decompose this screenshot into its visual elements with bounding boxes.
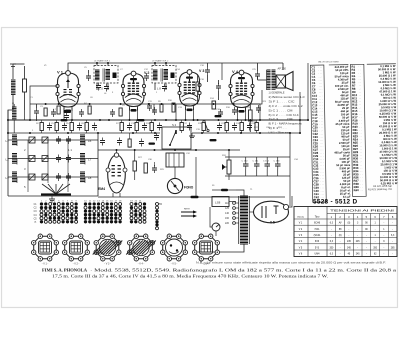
svg-text:TENSIONI AI PIEDINI: TENSIONI AI PIEDINI [330, 209, 394, 213]
svg-text:140: 140 [225, 212, 230, 215]
wire transformer bottom [196, 244, 244, 252]
wire bank rail c [67, 140, 69, 192]
svg-text:· ·: · · [359, 130, 361, 132]
wire right drop [289, 133, 291, 176]
wire V1 left loop [30, 86, 58, 104]
wire cap row top [225, 156, 290, 158]
resistor Rb11 [240, 123, 243, 131]
svg-text:(0): (0) [347, 223, 350, 225]
capacitor bank row3 [56, 173, 61, 181]
coil L2 [12, 154, 17, 164]
coil L6 [80, 172, 85, 182]
svg-text:Valvola: Valvola [297, 217, 305, 219]
svg-text:(0): (0) [339, 235, 342, 237]
svg-text:· · ·: · · · [319, 108, 323, 110]
capacitor Cb7 [157, 123, 162, 131]
capacitor C153 [275, 161, 281, 169]
svg-text:L9 TRASF. M.F. 2: L9 TRASF. M.F. 2 [152, 60, 169, 63]
svg-text:· · ·: · · · [319, 99, 323, 101]
IF transformer L8 [153, 70, 158, 80]
resistor Rb1 [40, 123, 43, 131]
svg-text:· ·: · · [360, 184, 362, 186]
capacitor Cb9 [217, 123, 222, 131]
tube V2 [121, 71, 145, 112]
capacitor C4 [79, 109, 84, 117]
fuse lozenge [191, 196, 199, 199]
resistor Rb6 [135, 123, 138, 131]
svg-text:· · ·: · · · [319, 73, 323, 75]
svg-text:· · ·: · · · [320, 140, 324, 142]
svg-text:· ·: · · [360, 158, 362, 160]
svg-text:C 152: C 152 [263, 161, 270, 163]
svg-text:6CH6: 6CH6 [314, 222, 321, 225]
box LS8 [212, 197, 229, 207]
svg-text:1 1: 1 1 [68, 148, 72, 152]
resistor lozenge R18 [210, 139, 217, 141]
pickup box [166, 153, 184, 167]
svg-text:- EM4 -: - EM4 - [202, 263, 210, 266]
svg-text:FONO: FONO [184, 186, 194, 190]
svg-text:· · ·: · · · [320, 178, 324, 180]
svg-text:125: 125 [225, 207, 230, 210]
capacitor Cb4 [92, 123, 97, 131]
svg-text:· ·: · · [360, 152, 362, 154]
svg-text:160: 160 [225, 217, 230, 220]
svg-text:6V6: 6V6 [315, 240, 320, 243]
svg-text:· ·: · · [359, 92, 361, 94]
svg-text:· ·: · · [359, 127, 361, 129]
svg-text:· ·: · · [360, 174, 362, 176]
svg-text:1) GENERALE: 1) GENERALE [269, 91, 285, 95]
wire LS8 [195, 157, 197, 197]
svg-text:C 151: C 151 [253, 161, 260, 163]
svg-text:ITA1: ITA1 [315, 228, 321, 231]
svg-text:5528 - 5512 D: 5528 - 5512 D [313, 199, 357, 206]
svg-text:· · ·: · · · [319, 83, 323, 85]
tube socket V 1 [32, 234, 59, 261]
svg-text:· · ·: · · · [319, 102, 323, 104]
svg-text:· ·: · · [360, 139, 362, 141]
svg-text:L6 TRASF. M.F. 1: L6 TRASF. M.F. 1 [94, 60, 111, 63]
mains selector switch S1 [212, 223, 220, 231]
svg-text:· ·: · · [358, 70, 360, 72]
svg-text:· ·: · · [360, 187, 362, 189]
svg-text:· · ·: · · · [319, 86, 323, 88]
svg-text:FIMI S. A. PHONOLA: FIMI S. A. PHONOLA [42, 269, 87, 273]
capacitor C15 [152, 107, 157, 115]
wire bank row2b [16, 159, 18, 165]
svg-text:AV: AV [339, 222, 342, 225]
switch box S2 [162, 127, 191, 149]
svg-text:· ·: · · [361, 190, 363, 192]
speaker cone [286, 72, 294, 91]
trimmer pair row3 [29, 174, 35, 180]
svg-text:· ·: · · [358, 66, 360, 68]
wire vertical x154 [153, 104, 155, 112]
wire heater line [98, 196, 285, 198]
svg-text:· · ·: · · · [321, 188, 325, 190]
wire drop V3b [193, 108, 195, 121]
resistor R10 [172, 103, 175, 112]
svg-text:· ·: · · [359, 120, 361, 122]
resistor R4 [88, 106, 91, 114]
capacitor C150 [243, 161, 249, 169]
trimmer C14 [162, 84, 167, 92]
resistor R2 [57, 106, 60, 114]
resistor Rb3 [70, 123, 73, 131]
wire speaker feed [258, 79, 267, 81]
capacitor Cb1 [47, 123, 52, 131]
wire vertical x176 [175, 104, 177, 120]
ground sym 1 [51, 196, 53, 199]
resistor R27 [133, 161, 136, 171]
tube V1 [56, 71, 80, 113]
svg-text:· ·: · · [359, 98, 361, 100]
fuse [221, 189, 228, 191]
capacitor C2 [34, 108, 39, 116]
rectifier tube V5 [254, 201, 289, 223]
svg-text:LS8: LS8 [215, 201, 221, 205]
resistor lozenge R30 [149, 143, 156, 145]
svg-text:· ·: · · [359, 82, 361, 84]
svg-text:· ·: · · [359, 95, 361, 97]
tube V3 [178, 70, 201, 112]
svg-text:· ·: · · [360, 146, 362, 148]
wire vertical x300 [299, 92, 301, 133]
wire bank rail b [47, 140, 49, 183]
svg-text:· ·: · · [359, 117, 361, 119]
resistor R26 [128, 139, 131, 147]
svg-text:L7: L7 [88, 158, 92, 162]
svg-text:· ·: · · [359, 111, 361, 113]
capacitor C3 [51, 109, 56, 117]
trimmer pair row1 [29, 137, 35, 143]
resistor Rb10 [225, 123, 228, 131]
trimmer pair row2 [29, 156, 35, 162]
output transformer T2 [267, 70, 271, 89]
svg-text:- V 5 -: - V 5 - [171, 263, 178, 266]
svg-text:· · ·: · · · [320, 153, 324, 155]
wire em4 top [116, 150, 118, 153]
svg-text:N.B. - Le misure sono state ef: N.B. - Le misure sono state effettuate r… [196, 262, 386, 265]
svg-text:(SC41: (SC41 [314, 234, 321, 237]
wire bus upper [30, 103, 260, 105]
IF transformer L5 [95, 70, 100, 80]
component value table [310, 64, 398, 202]
svg-text:· · ·: · · · [319, 118, 323, 120]
coil L3 [12, 172, 17, 182]
wire bank rail a [27, 140, 29, 192]
svg-text:· ·: · · [360, 165, 362, 167]
svg-text:· · ·: · · · [319, 112, 323, 114]
svg-text:· ·: · · [360, 171, 362, 173]
tube V4 [229, 70, 254, 113]
svg-text:3) F 1 . . . . CIC: 3) F 1 . . . . CIC [269, 99, 295, 103]
svg-text:· ·: · · [359, 89, 361, 91]
svg-text:· · ·: · · · [319, 93, 323, 95]
svg-text:· ·: · · [359, 105, 361, 107]
capacitor C27 [100, 138, 105, 146]
wire drop V4b [245, 108, 247, 121]
resistor R7 [119, 108, 122, 116]
wire bank row1b [16, 141, 18, 147]
resistor R-grid V4 [196, 82, 199, 91]
svg-text:L 8: L 8 [157, 87, 161, 91]
dark blob under V1 [64, 110, 72, 113]
capacitor C28b [117, 138, 122, 146]
svg-text:220: 220 [225, 222, 230, 225]
svg-text:· · ·: · · · [318, 67, 322, 69]
wire bank row2 [8, 158, 98, 160]
wire fono bus [160, 149, 196, 151]
svg-text:5) C 1 . . . . CM: 5) C 1 . . . . CM [269, 108, 294, 112]
svg-text:V 1: V 1 [57, 70, 64, 75]
trimmer C5 [86, 73, 91, 81]
wire vertical x30 [29, 104, 31, 120]
svg-text:V 4: V 4 [232, 69, 239, 74]
speaker frame [276, 75, 286, 88]
resistor lozenge R16 [215, 115, 222, 117]
resistor Rb7 [150, 123, 153, 131]
wire right rail [307, 63, 309, 120]
wire cap row bottom [225, 175, 290, 177]
svg-text:L8: L8 [88, 176, 92, 180]
svg-text:· · ·: · · · [320, 169, 324, 171]
svg-text:EM4: EM4 [98, 187, 105, 191]
band switch [42, 184, 56, 194]
svg-text:· ·: · · [359, 108, 361, 110]
wire drop V2 [129, 108, 131, 121]
svg-text:· · ·: · · · [319, 77, 323, 79]
capacitor C18 [218, 109, 223, 117]
svg-text:L1: L1 [6, 139, 10, 143]
svg-text:· ·: · · [360, 149, 362, 151]
resistor Rb12 [255, 123, 258, 131]
capacitor C31 [154, 133, 159, 141]
wire vertical x260 [259, 104, 261, 120]
svg-text:· ·: · · [360, 136, 362, 138]
svg-text:· ·: · · [360, 162, 362, 164]
coil L5 [80, 154, 85, 164]
tube EM4 magic eye [108, 155, 126, 193]
svg-text:· · ·: · · · [319, 96, 323, 98]
capacitor C-tone [216, 83, 221, 91]
svg-text:· · ·: · · · [320, 175, 324, 177]
tube socket EM4 [193, 234, 220, 261]
wire top grid-cap bus [68, 63, 283, 73]
svg-text:R1 R21 1458 Reg. Cm: R1 R21 1458 Reg. Cm [368, 188, 392, 191]
wire mid bus [98, 149, 240, 151]
capacitor Cb5 [127, 123, 132, 131]
svg-text:· · ·: · · · [318, 70, 322, 72]
svg-text:· · ·: · · · [320, 137, 324, 139]
capacitor Cb10 [232, 123, 237, 131]
power transformer T1 [240, 196, 248, 244]
svg-text:V 3: V 3 [199, 69, 204, 73]
svg-text:V 5: V 5 [270, 221, 275, 225]
capacitor bank row2 [56, 155, 61, 163]
capacitor C6 [110, 109, 115, 117]
resistor R9 [160, 104, 163, 112]
resistor R14 [212, 101, 216, 109]
svg-text:· · ·: · · · [319, 105, 323, 107]
svg-text:· · ·: · · · [320, 162, 324, 164]
svg-text:S 2: S 2 [172, 123, 177, 127]
svg-text:VALORI DELLE PARTI: VALORI DELLE PARTI [318, 61, 340, 64]
svg-text:· · ·: · · · [320, 159, 324, 161]
svg-text:8) F 1 - MARA frequenza: 8) F 1 - MARA frequenza [269, 122, 303, 126]
capacitor C25 [255, 71, 260, 79]
svg-text:· · ·: · · · [319, 80, 323, 82]
resistor lozenge R5 [61, 119, 68, 121]
ground sym 2 [191, 133, 193, 136]
svg-text:· ·: · · [360, 155, 362, 157]
svg-text:· · ·: · · · [320, 146, 324, 148]
wire ground bus [8, 132, 160, 134]
svg-text:· ·: · · [360, 181, 362, 183]
svg-text:· · ·: · · · [320, 181, 324, 183]
switch S3 [203, 120, 205, 122]
antenna input [12, 64, 14, 79]
svg-text:L3: L3 [6, 176, 10, 180]
svg-text:· · ·: · · · [319, 115, 323, 117]
svg-text:· · ·: · · · [320, 172, 324, 174]
svg-text:AP 250: AP 250 [278, 67, 287, 71]
capacitor Cb6 [142, 123, 147, 131]
wire drop V3 [185, 108, 187, 121]
capacitor Cb2 [62, 123, 67, 131]
svg-text:· · ·: · · · [320, 131, 324, 133]
tube socket V 5 [161, 234, 188, 261]
wire bank row3b [16, 178, 18, 184]
svg-text:· · ·: · · · [320, 150, 324, 152]
svg-text:· ·: · · [359, 114, 361, 116]
wire vertical x222 [221, 63, 223, 80]
tube socket V 2 [62, 234, 89, 261]
svg-text:U 6 1 + 25cm anno: U 6 1 + 25cm anno [269, 131, 291, 135]
svg-text:C 150: C 150 [242, 161, 249, 163]
svg-text:- V 4 -: - V 4 - [138, 263, 145, 266]
resistor Rb2 [55, 123, 58, 131]
antenna coil L-ant [11, 80, 16, 94]
svg-text:- V 2 -: - V 2 - [73, 263, 80, 266]
svg-text:· · ·: · · · [320, 143, 324, 145]
capacitor bank row1 [56, 136, 61, 144]
svg-text:· · ·: · · · [320, 156, 324, 158]
svg-text:L2: L2 [6, 158, 10, 162]
svg-text:· ·: · · [359, 85, 361, 87]
svg-text:· · ·: · · · [319, 121, 323, 123]
resistor R28 [144, 163, 147, 173]
resistor lozenge R8 [138, 119, 145, 121]
coil L4 [80, 135, 85, 145]
coil L2a [12, 107, 17, 120]
svg-text:5Y3: 5Y3 [315, 246, 320, 249]
wire drop V4 [237, 108, 239, 121]
tube pin voltage table [294, 207, 397, 257]
svg-text:2) Bobine senso CIC 1-0: 2) Bobine senso CIC 1-0 [269, 95, 306, 99]
resistor Rb5 [120, 123, 123, 131]
svg-text:· ·: · · [359, 101, 361, 103]
svg-text:· · ·: · · · [319, 89, 323, 91]
svg-text:· ·: · · [360, 168, 362, 170]
svg-text:4) F 2 . . . onde CIC 1-2: 4) F 2 . . . onde CIC 1-2 [269, 104, 304, 108]
capacitor Cb11 [247, 123, 252, 131]
wire bank right rail [97, 133, 99, 196]
svg-text:· · ·: · · · [320, 165, 324, 167]
phono pickup FONO [167, 178, 182, 193]
svg-text:· · ·: · · · [321, 194, 325, 196]
svg-text:RETE: RETE [184, 209, 190, 211]
capacitor Cb8 [187, 123, 192, 131]
svg-text:- V 3 -: - V 3 - [104, 263, 111, 266]
wire antenna to V1 [13, 63, 25, 65]
wire drop to output transformer [282, 63, 284, 70]
capacitor C-coupling [205, 67, 210, 75]
coil L1 [12, 135, 17, 145]
primary element [23, 79, 27, 92]
svg-text:· · ·: · · · [319, 127, 323, 129]
svg-text:UM4: UM4 [314, 253, 320, 256]
svg-text:· · ·: · · · [320, 134, 324, 136]
capacitor C9 [147, 103, 152, 111]
wire B+ bus [8, 119, 308, 121]
wire x24 drop [24, 110, 26, 120]
svg-text:· ·: · · [359, 73, 361, 75]
wire drop V2b [137, 108, 139, 121]
tube socket V 3 [93, 234, 123, 261]
svg-text:· · ·: · · · [321, 191, 325, 193]
svg-text:110: 110 [225, 202, 229, 205]
svg-text:7) C 3 . . . . CM: 7) C 3 . . . . CM [269, 117, 294, 121]
wire drop V1 [63, 108, 65, 121]
svg-text:L6: L6 [88, 139, 92, 143]
resistor R21 [249, 110, 253, 121]
svg-text:· ·: · · [359, 79, 361, 81]
wire left rail [7, 110, 9, 196]
resistor Rb4 [85, 123, 88, 131]
svg-text:Tipo: Tipo [315, 216, 320, 219]
svg-text:· ·: · · [360, 177, 362, 179]
capacitor C20 [232, 107, 237, 115]
capacitor C22 [256, 105, 261, 113]
capacitor C30 [152, 165, 157, 173]
capacitor C152 [265, 161, 271, 169]
capacitor C151 [254, 161, 260, 169]
svg-text:· · ·: · · · [319, 124, 323, 126]
resistor R1 [44, 108, 47, 116]
svg-text:· ·: · · [360, 143, 362, 145]
svg-text:- V 1 -: - V 1 - [42, 263, 49, 266]
svg-text:· · ·: · · · [320, 184, 324, 186]
svg-text:· ·: · · [359, 76, 361, 78]
junction dots [7, 119, 9, 121]
svg-text:· ·: · · [360, 133, 362, 135]
resistor Rb8 [180, 123, 183, 131]
svg-text:· ·: · · [359, 124, 361, 126]
svg-text:6) C 2 . . . . CIC N.4: 6) C 2 . . . . CIC N.4 [269, 113, 300, 117]
wire bank bottom [8, 195, 98, 197]
resistor Rb9 [202, 123, 205, 131]
capacitor C29 [139, 139, 144, 147]
wire bank row1 [8, 139, 98, 141]
svg-text:C 153: C 153 [274, 161, 281, 163]
svg-text:R40: R40 [354, 188, 360, 192]
tube socket V 4 [126, 234, 156, 261]
wire drop V1b [71, 108, 73, 121]
potentiometer R31 [227, 160, 231, 174]
capacitor Cb3 [77, 123, 82, 131]
